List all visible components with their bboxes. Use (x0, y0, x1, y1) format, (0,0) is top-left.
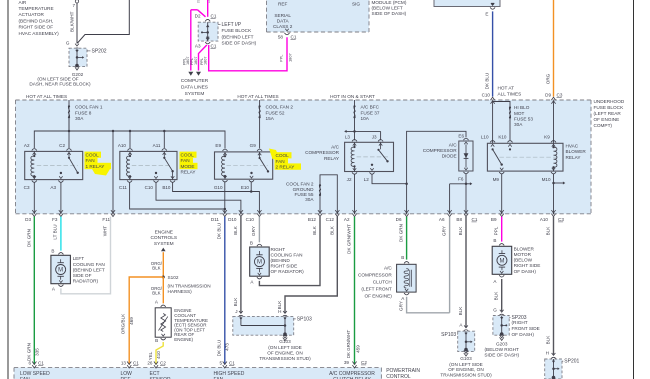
wire A3 to exit F3 (60, 182, 62, 214)
wire branch to F11 (112, 131, 114, 214)
pin B of ECT sensor (161, 338, 166, 340)
svg-text:COMPT): COMPT) (594, 123, 613, 128)
svg-text:410: 410 (156, 351, 161, 359)
hi blo mot fuse 53 30A (493, 102, 510, 141)
svg-text:6: 6 (28, 360, 31, 365)
svg-text:TRANSMISSION STUD): TRANSMISSION STUD) (440, 373, 492, 378)
left frame border (7, 0, 9, 379)
wire DK GRN 335 from D3 to PCM pin 6 (33, 217, 35, 365)
wire C10(mode) to exit D10 (156, 182, 241, 214)
svg-text:FRONT SIDE: FRONT SIDE (512, 326, 540, 331)
svg-text:SERIAL: SERIAL (274, 13, 291, 18)
svg-text:C11: C11 (119, 185, 128, 190)
svg-text:BLOWER: BLOWER (566, 149, 587, 154)
svg-text:B: B (250, 240, 253, 245)
svg-text:30A: 30A (305, 197, 314, 202)
svg-text:335: 335 (34, 348, 39, 356)
svg-text:SP201: SP201 (564, 359, 579, 365)
svg-text:OF ENGINE: OF ENGINE (594, 117, 620, 122)
svg-text:SIDE OF DASH): SIDE OF DASH) (372, 11, 407, 16)
wire PPL from A3 down to computer data lines (middle) (199, 45, 207, 71)
svg-text:J: J (235, 309, 237, 314)
svg-text:LEFT: LEFT (73, 256, 85, 261)
svg-text:G103: G103 (279, 339, 291, 344)
exit F3 (59, 210, 63, 213)
pin A of clutch (404, 293, 409, 295)
svg-text:OF DASH): OF DASH) (512, 332, 535, 337)
svg-text:HOT AT: HOT AT (498, 86, 515, 91)
svg-text:D6: D6 (396, 217, 402, 222)
svg-text:MODE: MODE (181, 164, 195, 169)
cool fan 2 ground fuse 55 30A (320, 175, 337, 214)
svg-text:A/C: A/C (331, 145, 339, 150)
pin C11 (127, 181, 132, 183)
svg-text:REF: REF (278, 2, 288, 7)
svg-text:C1: C1 (229, 360, 235, 365)
svg-text:COOLING FAN: COOLING FAN (73, 262, 105, 267)
exit C12 (335, 210, 339, 213)
svg-text:COMPRESSOR: COMPRESSOR (423, 148, 457, 153)
svg-text:M10: M10 (542, 177, 551, 182)
svg-text:AIR: AIR (19, 0, 27, 5)
svg-text:COOL FAN 1: COOL FAN 1 (75, 105, 103, 110)
exit F11 (111, 210, 115, 213)
wire PPL down to computer data lines (left) (190, 10, 192, 71)
svg-text:(BELOW RIGHT: (BELOW RIGHT (485, 347, 520, 352)
relay cool fan mode relay box (120, 151, 177, 179)
svg-text:(IN TRANSMISSION: (IN TRANSMISSION (168, 283, 211, 288)
svg-text:RELAY: RELAY (324, 156, 340, 161)
right frame border (633, 0, 635, 379)
exit D3 (32, 210, 36, 213)
svg-text:B12: B12 (308, 217, 317, 222)
hvac blower relay K10 stub (509, 148, 511, 150)
relay a/c compressor relay box (345, 142, 394, 171)
svg-text:A/C COMPRESSOR: A/C COMPRESSOR (329, 371, 375, 377)
svg-text:OF ENGINE, ON: OF ENGINE, ON (448, 367, 483, 372)
svg-text:LOW SPEED: LOW SPEED (20, 371, 50, 377)
wire M9 to exit B9 (501, 174, 503, 214)
svg-text:L10: L10 (481, 134, 489, 139)
svg-text:CLASS 2: CLASS 2 (273, 24, 293, 29)
svg-text:L2: L2 (364, 177, 370, 182)
svg-text:DK GRN/WHT: DK GRN/WHT (346, 330, 351, 359)
svg-text:(LEFT FRONT: (LEFT FRONT (361, 287, 392, 292)
svg-text:SYSTEM: SYSTEM (185, 91, 205, 97)
wire LT BLU from F3 to left cooling fan B (60, 217, 62, 251)
wire ORG/BLK from S102 to ECT sensor (162, 277, 164, 303)
cool fan 2 relay coil (224, 152, 226, 156)
svg-text:ENGINE: ENGINE (155, 229, 173, 235)
svg-text:FUSE 8: FUSE 8 (75, 110, 92, 115)
wire WHT from left fan A to F11 (61, 217, 111, 294)
wire BLK from C12 to splice H (285, 217, 337, 313)
svg-text:BLK: BLK (152, 291, 160, 296)
wire PPL D2 branch (191, 9, 198, 11)
wire C10 to L10 (492, 101, 494, 143)
svg-text:A3: A3 (195, 43, 201, 48)
svg-text:(LEFT REAR: (LEFT REAR (594, 111, 622, 116)
svg-text:A2: A2 (24, 143, 30, 148)
svg-text:F6: F6 (458, 177, 464, 182)
relay cool fan 2 relay box (215, 152, 273, 179)
ground G203 (500, 332, 504, 336)
svg-text:A/C: A/C (449, 142, 457, 147)
pin A of blower motor (499, 275, 504, 277)
svg-text:DIODE: DIODE (442, 154, 457, 159)
svg-text:D9: D9 (545, 92, 551, 97)
riser to A10 (129, 131, 131, 148)
svg-text:ORG: ORG (546, 73, 551, 84)
svg-text:BLK: BLK (458, 306, 463, 316)
svg-text:B: B (401, 255, 404, 260)
svg-text:G9: G9 (250, 143, 257, 148)
hvac blower relay coil (552, 146, 554, 148)
svg-text:F3: F3 (52, 217, 58, 222)
splice SP203 box (493, 316, 509, 336)
a/c compressor relay switch (380, 142, 382, 149)
svg-text:TRANSMISSION STUD): TRANSMISSION STUD) (259, 356, 311, 361)
exit D6 (405, 210, 409, 213)
wire ORG from top to D9 (553, 0, 555, 97)
svg-text:BLK/WHT: BLK/WHT (70, 11, 75, 32)
wire PPL from PCM serial data (C1 entry) (207, 0, 209, 17)
svg-text:E9: E9 (215, 143, 221, 148)
splice SP103 (right) box (458, 331, 475, 351)
svg-text:DK BLU: DK BLU (485, 73, 490, 90)
svg-text:30A: 30A (75, 116, 84, 121)
svg-text:DK GRN: DK GRN (27, 343, 32, 361)
svg-text:459: 459 (355, 345, 360, 353)
svg-text:PPL: PPL (494, 226, 499, 235)
wire ORG/BLK to splice S102 (162, 252, 164, 277)
wire DK GRN/WHT 459 from A2 to PCM pin 39 (354, 217, 356, 365)
a/c compressor relay coil (354, 142, 356, 147)
svg-text:CLUTCH: CLUTCH (373, 280, 392, 285)
svg-text:(BELOW: (BELOW (514, 258, 533, 263)
svg-text:B9: B9 (491, 217, 497, 222)
svg-text:E: E (485, 11, 488, 16)
svg-text:1807: 1807 (203, 57, 207, 65)
svg-text:FUSE BLOCK: FUSE BLOCK (594, 105, 625, 110)
pin M9 (499, 172, 504, 174)
cool fan 2 relay switch (259, 152, 261, 158)
svg-text:F11: F11 (102, 217, 110, 222)
wire from actuator second pin (top right) joining at G (78, 0, 130, 43)
svg-text:A2: A2 (344, 217, 350, 222)
svg-text:RIGHT SIDE OF: RIGHT SIDE OF (19, 25, 54, 30)
svg-text:BLOWER: BLOWER (514, 246, 535, 251)
svg-text:J2: J2 (347, 177, 352, 182)
wire DK BLU from E to C10 (492, 11, 494, 96)
wire ORG/BLK 469 from S102 to PCM pin 13 (129, 277, 163, 365)
svg-text:OF ENGINE): OF ENGINE) (364, 294, 392, 299)
svg-text:FUSE 53: FUSE 53 (514, 116, 533, 121)
wire BLK from D10 to splice J (240, 217, 242, 313)
svg-text:RIGHT SIDE: RIGHT SIDE (514, 263, 541, 268)
svg-text:DK GRN/WHT: DK GRN/WHT (346, 224, 351, 254)
svg-text:DK BLU: DK BLU (216, 223, 221, 240)
svg-text:C2: C2 (160, 360, 166, 365)
svg-text:GRY: GRY (441, 226, 446, 236)
svg-text:C3: C3 (558, 217, 564, 222)
pin C10 (154, 181, 159, 183)
svg-text:(BEHIND DASH,: (BEHIND DASH, (19, 18, 54, 23)
svg-text:B10: B10 (162, 185, 171, 190)
svg-text:OF ENGINE, ON: OF ENGINE, ON (267, 350, 302, 355)
svg-text:C10: C10 (482, 92, 491, 97)
exit B9 (500, 210, 504, 213)
exit A10 (551, 210, 555, 213)
svg-text:HARNESS): HARNESS) (168, 289, 193, 294)
wire BLK/WHT from actuator pin 7 (76, 3, 78, 44)
splice SP103 box (233, 316, 294, 335)
svg-text:A/C: A/C (384, 265, 392, 270)
svg-text:C1: C1 (472, 217, 478, 222)
svg-text:H: H (546, 350, 549, 355)
svg-text:(BELOW LEFT: (BELOW LEFT (372, 6, 403, 11)
highlight cool fan 1 relay (85, 152, 112, 176)
svg-text:G: G (493, 307, 497, 312)
svg-text:LOW: LOW (121, 371, 133, 377)
svg-text:BLK: BLK (494, 291, 499, 301)
wire BLK from A10 to splice SP201 (553, 217, 555, 355)
svg-text:FAN: FAN (86, 158, 95, 163)
wire from compressor-diode E6 over to D6 drop (407, 131, 466, 183)
svg-text:13: 13 (121, 360, 127, 365)
svg-text:(BEHIND LEFT: (BEHIND LEFT (73, 267, 105, 272)
svg-text:J3: J3 (372, 135, 377, 140)
svg-text:A10: A10 (118, 143, 127, 148)
svg-text:DATA: DATA (277, 18, 290, 23)
svg-text:E10: E10 (241, 185, 250, 190)
svg-text:C2: C2 (59, 143, 65, 148)
wire YEL 410 from ECT sensor to PCM pin 26 (156, 342, 163, 365)
svg-text:LEFT I/P: LEFT I/P (222, 22, 242, 28)
svg-text:15A: 15A (266, 116, 275, 121)
left I/P fuse block splice box (198, 22, 218, 41)
actuator pin 7 terminal ring (75, 0, 78, 3)
wire D9 to K9 (553, 101, 555, 143)
pin L2 (370, 172, 375, 174)
svg-text:LT BLU: LT BLU (53, 224, 58, 239)
svg-text:A10: A10 (540, 217, 549, 222)
svg-text:SYSTEM: SYSTEM (154, 241, 174, 247)
svg-text:DK GRN: DK GRN (398, 224, 403, 242)
svg-text:RELAY: RELAY (566, 155, 582, 160)
svg-text:M: M (499, 258, 504, 264)
arrow to engine controls system (161, 248, 166, 252)
powertrain control module (PCM) box top center (267, 0, 370, 32)
svg-text:MOT: MOT (514, 111, 525, 116)
pin A of left cooling fan (58, 285, 63, 287)
svg-text:FAN: FAN (181, 158, 190, 163)
exit A2 (352, 210, 356, 213)
svg-text:B: B (155, 338, 158, 343)
svg-text:G203: G203 (496, 341, 508, 346)
relay hvac blower relay box (487, 143, 563, 171)
pin A3 (58, 181, 63, 183)
svg-text:A3: A3 (50, 185, 56, 190)
svg-text:DK GRN: DK GRN (26, 229, 31, 247)
svg-text:ACTUATOR: ACTUATOR (19, 12, 45, 17)
highlight cool fan mode relay (180, 152, 198, 170)
svg-text:FUSE 52: FUSE 52 (266, 110, 285, 115)
svg-text:RIGHT SIDE: RIGHT SIDE (271, 264, 298, 269)
svg-text:7: 7 (72, 3, 75, 8)
svg-text:SP103: SP103 (441, 332, 456, 338)
svg-text:M: M (257, 260, 262, 266)
svg-text:GRY: GRY (251, 226, 256, 236)
riser to A11 (163, 131, 165, 148)
svg-text:HVAC: HVAC (566, 144, 579, 149)
svg-text:1807: 1807 (288, 53, 293, 62)
svg-text:C10: C10 (145, 185, 154, 190)
svg-text:CONTROL: CONTROL (386, 374, 411, 379)
svg-text:(ON LEFT SIDE: (ON LEFT SIDE (449, 362, 483, 367)
wire M10 to exit A10 with right stub arrow (553, 174, 555, 214)
module box top right (cut off) (434, 0, 500, 7)
wire F6 junction to exits A6 and B8 (465, 174, 467, 215)
a/c bfc fuse 37 10A (354, 100, 356, 140)
svg-text:HOT AT ALL TIMES: HOT AT ALL TIMES (26, 94, 67, 99)
pin B10 (170, 181, 175, 183)
svg-text:HIGH SPEED: HIGH SPEED (214, 371, 245, 377)
svg-text:D3: D3 (25, 217, 31, 222)
svg-text:OF RADIATOR): OF RADIATOR) (271, 269, 305, 274)
svg-text:L3: L3 (345, 135, 351, 140)
svg-text:COOL FAN 2: COOL FAN 2 (266, 105, 294, 110)
svg-text:(BEHIND: (BEHIND (271, 258, 291, 263)
svg-text:18: 18 (206, 0, 211, 3)
cool fan 1 relay switch (68, 151, 70, 157)
svg-text:RADIATOR): RADIATOR) (73, 279, 99, 284)
svg-text:C3: C3 (557, 92, 563, 97)
svg-text:ENGINE): ENGINE) (174, 337, 193, 342)
svg-text:5: 5 (219, 360, 222, 365)
exit D10 (239, 210, 243, 213)
svg-text:(ON LEFT SIDE: (ON LEFT SIDE (268, 345, 302, 350)
wire E10 to exit C10 (250, 182, 252, 192)
wire PPL from B9 to blower motor (501, 217, 503, 242)
wire PPL from C1 down then right to serial data riser (209, 37, 287, 71)
svg-text:E6: E6 (458, 134, 464, 139)
bus wire from fuse 8 (34, 131, 225, 148)
svg-text:GRY: GRY (398, 301, 403, 311)
svg-text:BLK: BLK (233, 225, 238, 235)
svg-text:BLK: BLK (546, 335, 551, 345)
wire BLK from B8 to splice SP103 right (465, 217, 467, 327)
cool fan 2 fuse 52 15A (259, 100, 261, 148)
wire fuse8 to C2 (68, 117, 70, 148)
svg-text:RIGHT: RIGHT (271, 247, 286, 252)
svg-text:SP202: SP202 (92, 48, 107, 54)
ground G103 (283, 332, 287, 336)
svg-text:G10: G10 (214, 185, 223, 190)
svg-text:COOL: COOL (276, 153, 290, 158)
svg-text:PPL: PPL (279, 54, 284, 62)
svg-text:39: 39 (344, 360, 350, 365)
wire G10 to exit D11 (224, 182, 226, 215)
wire GRY from clutch A joining A6 wire (407, 297, 450, 313)
cool fan mode relay switch (163, 151, 165, 157)
svg-text:FUSE 37: FUSE 37 (361, 110, 380, 115)
svg-text:HVAC ASSEMBLY): HVAC ASSEMBLY) (19, 31, 60, 36)
wire C11 to D11 junction (130, 182, 225, 209)
svg-text:469: 469 (129, 317, 134, 325)
svg-text:26: 26 (147, 360, 153, 365)
svg-text:WHT: WHT (103, 226, 108, 237)
junction at fuse 37 with left continuation arrow (353, 130, 356, 133)
svg-text:UNDERHOOD: UNDERHOOD (594, 99, 625, 104)
svg-text:C12: C12 (326, 217, 335, 222)
svg-text:1 RELAY: 1 RELAY (86, 164, 106, 169)
svg-text:C1: C1 (133, 360, 139, 365)
powertrain control module box (bottom) (14, 368, 381, 379)
svg-text:(BEHIND LEFT: (BEHIND LEFT (222, 34, 254, 39)
underhood fuse block (dashed box, light blue) (16, 100, 592, 214)
svg-text:K10: K10 (498, 134, 507, 139)
exit C10 (257, 210, 261, 213)
svg-text:B: B (493, 238, 496, 243)
svg-text:A6: A6 (439, 217, 445, 222)
svg-text:C10: C10 (246, 217, 255, 222)
ground G103 right (464, 348, 468, 352)
svg-text:FUSE BLOCK: FUSE BLOCK (222, 28, 253, 33)
hvac blower relay switch (492, 148, 494, 150)
wire J2 to exit A2 (354, 174, 356, 214)
svg-text:ECT: ECT (150, 371, 160, 377)
diode symbol (465, 144, 467, 167)
svg-text:COMPRESSOR: COMPRESSOR (358, 272, 392, 277)
wire DK GRN from D6 to clutch B (406, 217, 408, 260)
svg-text:CONTROLS: CONTROLS (150, 235, 177, 241)
svg-text:D2: D2 (195, 14, 201, 19)
svg-text:TEMPERATURE: TEMPERATURE (19, 6, 54, 11)
a/c compressor diode box (459, 141, 473, 171)
svg-text:HOT IN ON & START: HOT IN ON & START (330, 94, 375, 99)
exit A6 (448, 210, 452, 213)
pin A of right cooling fan (257, 277, 262, 279)
svg-text:COMPRESSOR: COMPRESSOR (305, 150, 339, 155)
wire to exit D6 (406, 184, 408, 215)
connector E (490, 7, 495, 9)
cool fan mode relay coil (129, 151, 131, 156)
wire DK BLU 473 from D11 to PCM pin 5 (224, 217, 226, 365)
svg-text:FAN: FAN (276, 159, 285, 164)
svg-text:SIDE OF DASH): SIDE OF DASH) (484, 353, 519, 358)
svg-text:G: G (66, 41, 70, 46)
pin E10 (249, 180, 254, 182)
svg-text:BLK: BLK (312, 225, 317, 235)
wire C3 to exit D3 (33, 182, 35, 214)
svg-text:C1: C1 (38, 360, 44, 365)
svg-text:OF DASH): OF DASH) (514, 269, 537, 274)
svg-text:BLK: BLK (152, 266, 160, 271)
svg-text:MOTOR: MOTOR (514, 252, 532, 257)
svg-text:BLK: BLK (546, 226, 551, 236)
wire GRY from A6 down (449, 217, 451, 313)
svg-text:C2: C2 (361, 360, 367, 365)
wire GRY from C10 to right cooling fan B (258, 217, 260, 243)
svg-text:C1: C1 (291, 35, 297, 40)
svg-text:DK BLU: DK BLU (216, 340, 221, 357)
svg-text:2 RELAY: 2 RELAY (276, 165, 296, 170)
wire L2 joining D6 drop (372, 174, 407, 184)
svg-text:DATA LINES: DATA LINES (181, 85, 208, 91)
svg-text:D11: D11 (211, 217, 220, 222)
svg-text:HOT AT ALL TIMES: HOT AT ALL TIMES (237, 94, 278, 99)
